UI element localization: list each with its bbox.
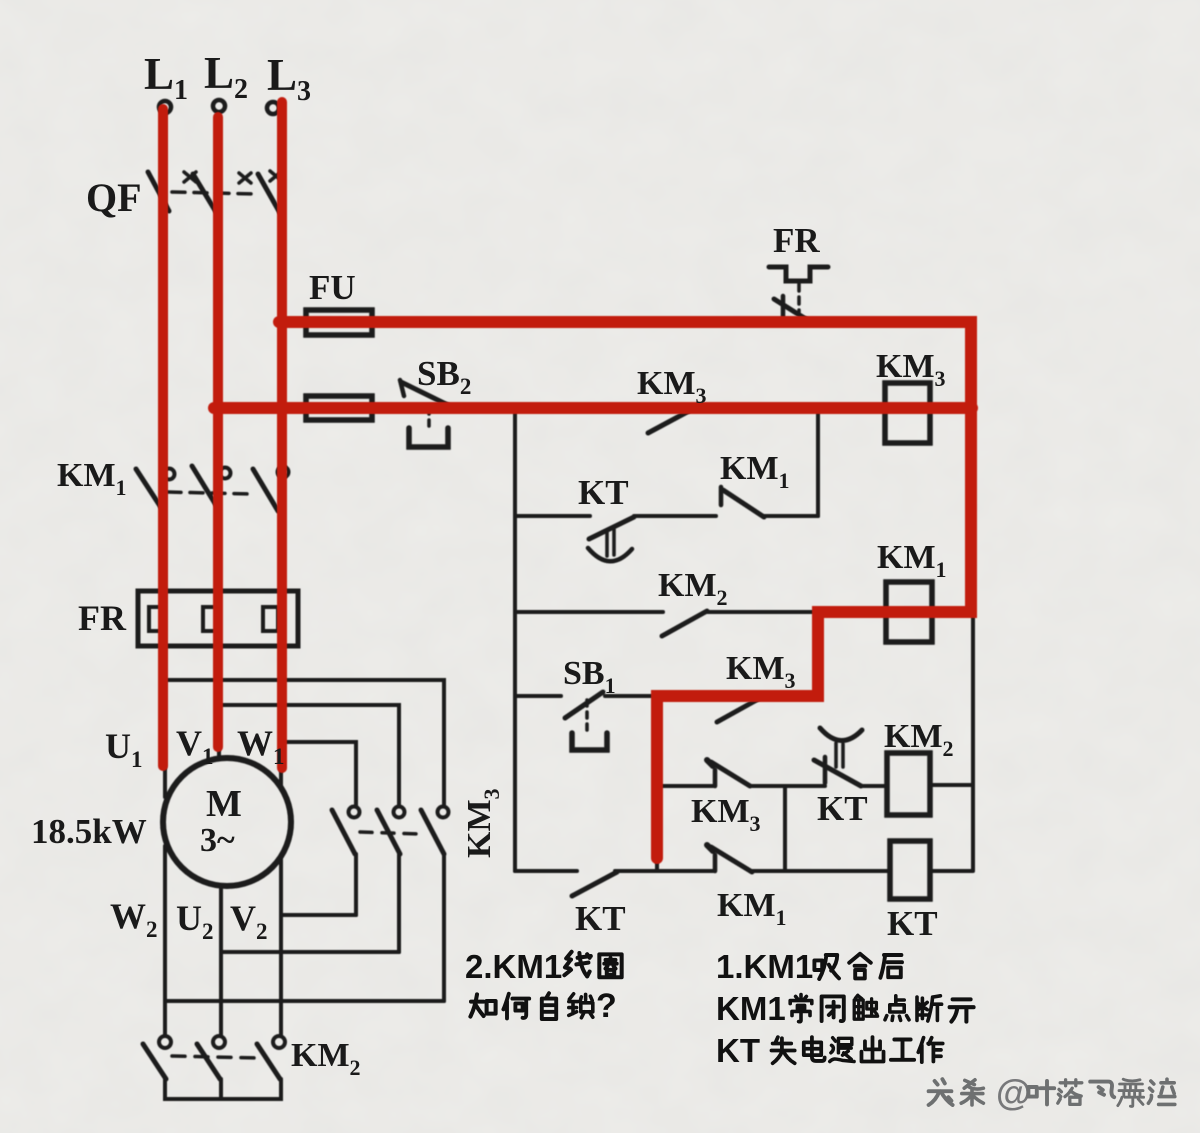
breaker QF pole 1 <box>148 172 169 211</box>
wire phase B vertical L2 <box>217 112 221 757</box>
coil KM1 <box>886 582 932 642</box>
contact KM3 NC (row 5) <box>717 697 762 722</box>
hanzi zuo <box>918 1038 942 1062</box>
red highlight phase L2 <box>213 117 223 747</box>
contact KM3 self-hold NO (row 2) <box>648 411 689 433</box>
hanzi chu <box>854 995 877 1019</box>
wire motor W2 down <box>163 846 167 1036</box>
hanzi he2 <box>503 994 529 1019</box>
svg-text:?: ? <box>596 987 617 1025</box>
coil KM3 <box>885 383 930 443</box>
red highlight phase L3 <box>277 102 287 768</box>
fuse FU2 <box>306 396 372 420</box>
hanzi tui <box>830 1038 854 1062</box>
timer KT delayed-close contact <box>589 517 634 539</box>
contact KM2 NC interlock <box>662 611 707 636</box>
right rail <box>971 322 975 870</box>
contactor KM1 main pole 3 <box>253 469 278 511</box>
contactor KM3 main dashed link <box>360 832 420 834</box>
hanzi he <box>849 954 871 979</box>
wire V2 branch to contact 1 <box>281 913 356 917</box>
KT NC tick <box>823 757 828 783</box>
node wire 818 down to SB1 row <box>816 612 820 696</box>
hanzi bi <box>822 996 844 1021</box>
timer KT delayed NO contact (bottom) <box>572 872 617 896</box>
svg-text:KT: KT <box>575 899 626 938</box>
wire W2 branch to contact 3 <box>165 999 444 1003</box>
wire U2 branch to contact 2 <box>221 950 399 954</box>
hanzi kai <box>950 999 974 1021</box>
SB2 actuator dashed <box>427 408 431 431</box>
svg-text:KT: KT <box>716 1032 760 1069</box>
hanzi shi <box>771 1037 794 1063</box>
contact KM1 NC (row 3) tick <box>719 487 724 505</box>
KT NC twin stems <box>836 743 843 767</box>
red highlight phase L1 <box>158 109 168 766</box>
thermal relay FR heater box <box>138 591 298 646</box>
contact KM3 NO (row 6) <box>711 762 750 786</box>
coil KM2 <box>887 753 930 815</box>
hanzi chu2 <box>861 1037 883 1061</box>
hanzi quan <box>599 954 621 977</box>
contactor KM1 main dashed link <box>168 492 251 494</box>
breaker QF dashed link <box>172 192 256 194</box>
hanzi duan <box>917 996 942 1021</box>
svg-text:1.KM1: 1.KM1 <box>716 948 813 985</box>
svg-text:KT: KT <box>817 789 868 828</box>
red highlight control feed L2 row <box>214 402 972 414</box>
svg-text:18.5kW: 18.5kW <box>31 812 147 851</box>
watermark yeluofeiwuqi <box>1028 1081 1054 1104</box>
left rail <box>513 410 517 871</box>
SB2 button cap <box>409 428 448 447</box>
svg-text:FR: FR <box>78 598 127 638</box>
contact KM3 NO (row 6) dot <box>707 760 713 766</box>
wire KM2 coil to rail <box>930 783 973 787</box>
svg-text:KT: KT <box>887 904 938 943</box>
node wire 657 vertical <box>655 696 659 871</box>
wire tap L1 to delta contact 3 <box>165 680 444 806</box>
fuse FU1 <box>306 310 372 335</box>
wire row 6 KM2 coil row <box>660 784 887 788</box>
wire row 7 bottom KT coil row <box>515 869 973 873</box>
wire row 3 KT/KM1 <box>515 514 818 518</box>
FR NC contact <box>781 296 786 318</box>
stop button SB2 tick <box>400 380 404 396</box>
svg-text:2.KM1: 2.KM1 <box>465 948 562 985</box>
hanzi dian <box>885 996 909 1021</box>
contact KM3 NO (row 6) stub <box>713 770 718 786</box>
wire node 785 vertical <box>783 786 787 871</box>
contactor KM3 main pole 3 <box>438 807 449 818</box>
node wire 818 down to row 3 <box>816 411 820 516</box>
FR heater element 3 <box>263 607 278 631</box>
watermark toutiao <box>929 1079 953 1105</box>
wire row 5 SB1 row <box>515 694 818 698</box>
wire phase A vertical L1 <box>163 113 167 797</box>
thermal relay FR trip element <box>769 267 828 281</box>
hanzi chang <box>790 995 812 1022</box>
hanzi ru <box>470 994 495 1016</box>
breaker QF pole 2 <box>193 174 216 212</box>
SB1 actuator dashed <box>585 700 589 734</box>
FR heater element 2 <box>203 607 218 631</box>
wire motor V2 down <box>279 856 283 1036</box>
timer KT delayed-open NC cup <box>820 728 862 741</box>
contactor KM3 main pole 2 <box>394 807 405 818</box>
hanzi xi <box>814 955 839 979</box>
contact KM1 NC (bottom row) tick <box>707 845 713 851</box>
wire tap L2 to delta contact 2 <box>219 705 399 806</box>
contactor KM1 main pole 2 <box>192 466 219 510</box>
svg-text:@: @ <box>996 1072 1031 1113</box>
SB1 button cap <box>572 733 607 750</box>
wire motor U2 down <box>219 886 223 1036</box>
wire control feed top from L3 <box>281 320 973 324</box>
wire phase C vertical L3 <box>279 114 283 787</box>
svg-text:FU: FU <box>309 268 356 307</box>
terminal L2 <box>213 100 225 112</box>
hanzi suo <box>569 994 593 1018</box>
wire star point <box>165 1079 281 1099</box>
contactor KM2 main dashed link <box>172 1056 258 1058</box>
hanzi xian <box>564 952 590 977</box>
wire row 4 KM1 coil row <box>515 610 973 614</box>
svg-text:3~: 3~ <box>200 822 235 859</box>
coil KT <box>890 841 930 899</box>
contactor KM2 main pole 1 <box>159 1036 171 1048</box>
hanzi dian2 <box>804 1037 825 1061</box>
contactor KM2 main pole 3 <box>273 1036 285 1048</box>
motor M circle <box>163 758 291 886</box>
start button SB1 contact <box>565 692 603 718</box>
contactor KM2 main pole 2 <box>213 1036 225 1048</box>
terminal L1 <box>159 101 171 113</box>
wire control feed row from L2 <box>219 408 973 412</box>
svg-text:FR: FR <box>773 221 820 260</box>
red highlight top feed and right rail down to KM1 coil <box>279 322 971 858</box>
wire tap L3 to delta contact 1 <box>281 742 356 806</box>
FR heater element 1 <box>149 607 164 631</box>
terminal L3 <box>267 102 279 114</box>
hanzi gong <box>891 1039 914 1059</box>
svg-text:KM1: KM1 <box>716 990 786 1027</box>
KT NC contact diagonal <box>814 760 861 786</box>
svg-text:M: M <box>206 783 242 825</box>
FR actuator dashed <box>797 284 801 312</box>
svg-text:QF: QF <box>86 175 142 220</box>
contact KM1 NC (bottom row) <box>711 847 752 872</box>
contactor KM1 main pole 1 <box>136 469 162 509</box>
breaker QF pole 3 <box>258 174 280 213</box>
hanzi hou <box>880 955 902 978</box>
stop button SB2 contact <box>401 382 450 406</box>
hanzi zi <box>542 993 556 1019</box>
contactor KM3 main pole 1 <box>349 807 360 818</box>
svg-text:KT: KT <box>578 473 629 512</box>
contact KM1 NC (row 3) <box>723 490 764 517</box>
